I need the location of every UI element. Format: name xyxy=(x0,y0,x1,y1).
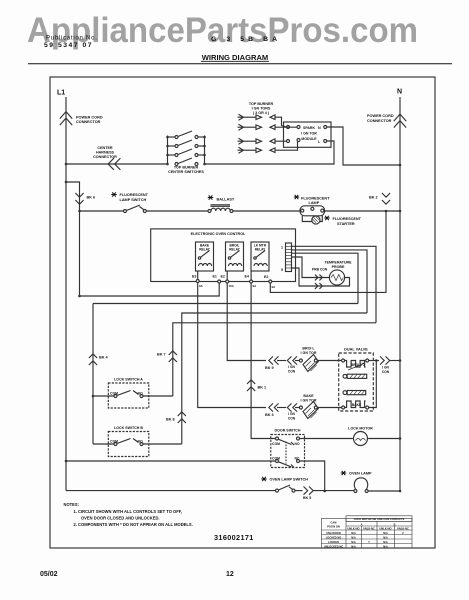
svg-text:SPARK: SPARK xyxy=(303,126,315,130)
svg-text:BK 4: BK 4 xyxy=(99,356,109,360)
svg-text:E4: E4 xyxy=(245,275,249,279)
svg-text:CONNECTOR: CONNECTOR xyxy=(93,155,117,159)
svg-text:Y: Y xyxy=(368,540,370,544)
svg-text:1: 1 xyxy=(281,246,283,250)
svg-text:N/A: N/A xyxy=(351,531,356,535)
svg-text:I GN TOR: I GN TOR xyxy=(301,351,317,355)
svg-text:N/A: N/A xyxy=(383,540,388,544)
svg-text:BROI L: BROI L xyxy=(351,363,362,367)
svg-text:N/A: N/A xyxy=(383,544,388,548)
svg-text:I GN: I GN xyxy=(382,366,389,370)
svg-text:B: B xyxy=(394,522,396,526)
svg-text:UNLK-NO: UNLK-NO xyxy=(380,526,392,530)
svg-text:FLUORESCENT: FLUORESCENT xyxy=(301,196,330,200)
svg-text:DOOR SWITCH: DOOR SWITCH xyxy=(275,429,301,433)
svg-text:COM: COM xyxy=(272,442,280,446)
svg-text:NC: NC xyxy=(295,457,300,461)
svg-text:TOP BURNER: TOP BURNER xyxy=(249,102,274,106)
svg-text:I GN: I GN xyxy=(288,365,295,369)
svg-text:CON: CON xyxy=(382,370,390,374)
svg-text:A: A xyxy=(361,522,363,526)
svg-text:LOCKED: LOCKED xyxy=(328,540,339,544)
svg-text:BK 8: BK 8 xyxy=(166,418,175,422)
svg-text:POS'N ON: POS'N ON xyxy=(327,525,340,529)
svg-text:UNLK-NC: UNLK-NC xyxy=(397,526,409,530)
svg-text:12: 12 xyxy=(226,571,234,578)
svg-text:CAM: CAM xyxy=(331,521,337,525)
svg-text:E3: E3 xyxy=(192,275,196,279)
svg-text:UNLOCKED: UNLOCKED xyxy=(326,531,341,535)
svg-text:BK 1: BK 1 xyxy=(258,386,267,390)
svg-text:59 5347 07: 59 5347 07 xyxy=(44,42,93,49)
svg-text:N/A: N/A xyxy=(351,535,356,539)
svg-text:NOTES:: NOTES: xyxy=(64,502,79,507)
svg-text:LAMP SWITCH: LAMP SWITCH xyxy=(120,198,147,202)
svg-text:COM: COM xyxy=(272,457,280,461)
svg-text:CONNECTOR: CONNECTOR xyxy=(76,120,101,124)
svg-text:POWER CORD: POWER CORD xyxy=(367,114,394,118)
svg-text:PRB CON: PRB CON xyxy=(312,268,328,272)
svg-text:Publication No.: Publication No. xyxy=(46,36,98,42)
svg-text:PROBE: PROBE xyxy=(332,265,345,269)
svg-text:316002171: 316002171 xyxy=(214,533,254,542)
svg-text:N/A: N/A xyxy=(351,544,356,548)
svg-text:MODULE: MODULE xyxy=(301,137,317,141)
svg-text:BK 5: BK 5 xyxy=(303,496,311,500)
svg-text:9: 9 xyxy=(281,268,283,272)
svg-text:BALLAST: BALLAST xyxy=(217,197,235,201)
svg-text:CON: CON xyxy=(288,417,296,421)
svg-text:L: L xyxy=(318,140,321,144)
svg-text:E2: E2 xyxy=(221,275,225,279)
svg-text:( 3 OR 4 ): ( 3 OR 4 ) xyxy=(253,111,270,115)
svg-text:9A: 9A xyxy=(199,284,204,288)
svg-text:BK 6: BK 6 xyxy=(87,196,96,200)
svg-text:OVEN LAMP SWITCH: OVEN LAMP SWITCH xyxy=(270,478,309,482)
svg-text:BAKE: BAKE xyxy=(303,394,314,398)
svg-text:CON: CON xyxy=(288,370,296,374)
svg-text:LOCK MOTOR SW AND CAM CON: LOCK MOTOR SW AND CAM CONTACTS xyxy=(354,517,405,521)
svg-text:LOCK SWITCH B: LOCK SWITCH B xyxy=(114,426,143,430)
svg-text:1. CIRCUIT SHOWN WITH ALL CON: 1. CIRCUIT SHOWN WITH ALL CONTROLS SET T… xyxy=(74,509,182,514)
svg-text:NO: NO xyxy=(138,440,143,444)
svg-text:BROI L: BROI L xyxy=(302,347,315,351)
svg-text:E1: E1 xyxy=(213,275,217,279)
svg-text:NO: NO xyxy=(295,442,300,446)
svg-text:N/A: N/A xyxy=(383,535,388,539)
svg-text:NO: NO xyxy=(138,392,143,396)
svg-text:9A: 9A xyxy=(253,284,258,288)
svg-text:I GN TOR: I GN TOR xyxy=(301,399,317,403)
svg-text:I GN TORS: I GN TORS xyxy=(252,107,271,111)
svg-text:N/A: N/A xyxy=(351,540,356,544)
svg-text:05/02: 05/02 xyxy=(40,571,58,578)
svg-text:OVEN LAMP: OVEN LAMP xyxy=(349,472,372,476)
svg-text:COM: COM xyxy=(110,392,118,396)
svg-text:COM: COM xyxy=(110,440,118,444)
svg-text:N/A: N/A xyxy=(383,531,388,535)
svg-text:POWER CORD: POWER CORD xyxy=(76,115,103,119)
svg-text:FLUORESCENT: FLUORESCENT xyxy=(120,193,149,197)
svg-text:RELAY: RELAY xyxy=(255,248,266,252)
svg-text:BAKE: BAKE xyxy=(352,403,362,407)
svg-text:BK 7: BK 7 xyxy=(157,353,166,357)
svg-text:UNLOCKED NC: UNLOCKED NC xyxy=(324,544,343,548)
svg-text:FLUORESCENT: FLUORESCENT xyxy=(333,217,362,221)
svg-text:2. COMPONENTS WITH * DO NOT A: 2. COMPONENTS WITH * DO NOT APPEAR ON AL… xyxy=(74,522,193,527)
svg-text:BK 9: BK 9 xyxy=(265,366,274,370)
svg-text:BK 2: BK 2 xyxy=(369,196,378,200)
svg-text:BK 3: BK 3 xyxy=(265,413,274,417)
svg-text:9A: 9A xyxy=(272,285,277,289)
svg-text:RELAY: RELAY xyxy=(199,248,210,252)
svg-text:G 3 5B BA: G 3 5B BA xyxy=(211,36,281,43)
svg-text:ELECTRONIC OVEN CONTROL: ELECTRONIC OVEN CONTROL xyxy=(191,232,246,236)
svg-text:TEMPERATURE: TEMPERATURE xyxy=(324,261,352,265)
svg-text:WIRING DIAGRAM: WIRING DIAGRAM xyxy=(202,55,269,62)
svg-text:I GN TOR: I GN TOR xyxy=(301,132,317,136)
svg-text:10A: 10A xyxy=(229,284,235,288)
svg-text:UNLK-NC: UNLK-NC xyxy=(363,526,375,530)
svg-text:LAMP: LAMP xyxy=(309,201,320,205)
svg-text:TOP BURNER: TOP BURNER xyxy=(174,166,199,170)
svg-text:L1: L1 xyxy=(57,90,65,97)
svg-text:RELAY: RELAY xyxy=(229,248,240,252)
svg-text:HARNESS: HARNESS xyxy=(96,151,115,155)
svg-text:CONNECTOR: CONNECTOR xyxy=(367,119,392,123)
svg-text:LOCKED NO: LOCKED NO xyxy=(326,535,342,539)
svg-text:DUAL VALVE: DUAL VALVE xyxy=(344,348,368,352)
svg-text:LOCK SWITCH A: LOCK SWITCH A xyxy=(114,378,143,382)
svg-text:N: N xyxy=(318,126,321,130)
svg-text:E2: E2 xyxy=(264,275,268,279)
svg-text:CENTER: CENTER xyxy=(97,146,112,150)
svg-text:STARTER: STARTER xyxy=(337,222,355,226)
svg-text:LOCK MOTOR: LOCK MOTOR xyxy=(348,427,373,431)
svg-text:I GN: I GN xyxy=(288,412,295,416)
svg-text:N: N xyxy=(397,89,402,96)
svg-text:OVEN DOOR CLOSED AND UNLOCKED.: OVEN DOOR CLOSED AND UNLOCKED. xyxy=(81,516,160,521)
svg-text:UNLK-NO: UNLK-NO xyxy=(348,526,360,530)
svg-text:CENTER SWITCHES: CENTER SWITCHES xyxy=(168,170,204,174)
